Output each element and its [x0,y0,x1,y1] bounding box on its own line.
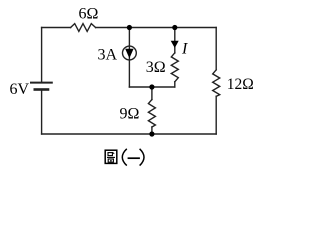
wire 3ohm branch lower [174,82,176,87]
caption yi horizontal stroke [128,157,140,159]
wire left upper vertical [41,28,43,82]
battery V1 short plate [35,88,48,91]
caption glyph tu middle bar [107,156,115,158]
wire top right horizontal [96,27,217,29]
svg-text:6V: 6V [10,81,30,98]
wire bottom horizontal [42,133,217,135]
resistor R 6ohm zigzag [71,24,96,32]
node junction dot middle [149,84,154,89]
current arrow I head [171,41,179,48]
node junction dot top 3ohm branch [172,25,177,30]
caption glyph tu inner top square [108,153,112,156]
battery V1 long plate [31,82,52,84]
svg-text:9Ω: 9Ω [120,106,140,123]
wire right lower vertical [215,96,217,134]
svg-text:6Ω: 6Ω [79,5,99,22]
svg-text:3Ω: 3Ω [146,59,166,76]
node junction dot bottom [149,131,154,136]
caption left parenthesis [122,149,127,166]
wire 3ohm branch arrow stem [174,28,176,54]
caption glyph tu bottom box [108,159,113,162]
node junction dot top current source [127,25,132,30]
wire left lower vertical [41,91,43,135]
wire 9ohm branch upper [151,87,153,100]
svg-text:I: I [181,41,188,58]
caption right parenthesis [140,149,144,166]
current source I1 circle [122,46,136,60]
svg-text:12Ω: 12Ω [227,76,254,93]
caption glyph tu (figure) outer box [105,150,117,163]
wire current source branch lower [128,60,130,87]
caption glyph tu bottom inner dot [110,160,112,161]
current source I1 internal arrow line [128,46,130,60]
svg-text:3A: 3A [98,46,118,63]
caption glyph tu inner top tick [112,152,114,154]
resistor R 3ohm zigzag [171,53,178,82]
wire 9ohm branch lower [151,127,153,134]
wire current source branch upper [128,28,130,47]
wire right upper vertical [215,28,217,70]
wire top left horizontal [42,27,71,29]
current source I1 arrow head [125,49,133,58]
wire middle horizontal node [129,86,174,88]
resistor R 9ohm zigzag [148,100,155,128]
resistor R 12ohm zigzag [213,70,220,97]
